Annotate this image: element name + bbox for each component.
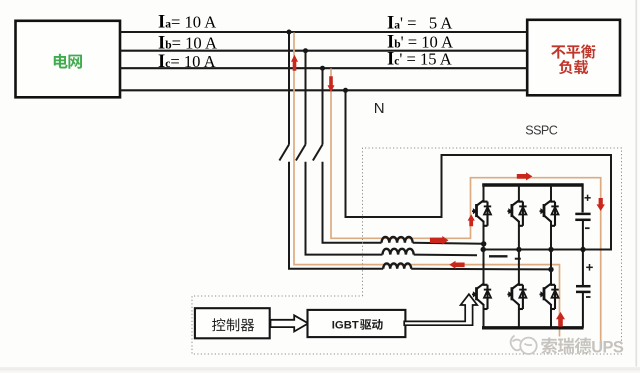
- wire: orange compensation path phase C loop: [331, 69, 601, 350]
- wire: phase B line grid to load: [120, 50, 527, 52]
- connector: block arrow controller->driver: [271, 315, 309, 331]
- svg-text:N: N: [374, 100, 385, 117]
- arrow: right loop down: [597, 198, 605, 211]
- arrow: bridge left up: [468, 214, 475, 226]
- wire: phase A to leg3 tap: [411, 268, 551, 271]
- wire: top bus to C1: [581, 183, 583, 212]
- wire: phase N line grid to load: [120, 89, 527, 91]
- wire: phase A drop upper: [288, 32, 290, 145]
- watermark text 索瑞德: [541, 337, 591, 353]
- wire: phase A drop lower + run to bridge leg3: [289, 162, 383, 269]
- node: phase B tap junction: [303, 48, 308, 53]
- arrow: row3 current left: [449, 261, 464, 269]
- wire: leg2 mid vertical: [518, 222, 520, 285]
- wire: phase C drop upper: [322, 68, 324, 144]
- text 电网 (grid): [54, 54, 82, 69]
- watermark logo circle: [511, 336, 537, 354]
- wire: phase B drop lower + run: [306, 162, 383, 255]
- wire: leg3 bottom stub: [550, 305, 552, 328]
- text 控制器: [212, 318, 254, 331]
- inductor La: [383, 263, 411, 268]
- text 不平衡: [551, 44, 595, 58]
- wire: leg2 upper stub: [518, 185, 520, 202]
- box: grid 电网: [16, 21, 121, 98]
- capacitor C1 (upper DC link): [575, 214, 590, 250]
- wire: leg3 upper stub: [550, 185, 552, 202]
- arrow: phase A injection up: [291, 55, 298, 71]
- inductor Lb: [383, 249, 414, 255]
- wire: phase B after inductor: [414, 254, 477, 257]
- box: unbalanced load 不平衡负载: [527, 20, 620, 96]
- connector: hollow gate-drive arrow: [404, 294, 477, 325]
- transistor V4 (lower IGBT leg1): [472, 283, 491, 309]
- wire: phase A line grid to load: [120, 31, 527, 33]
- box: IGBT driver IGBT驱动: [308, 310, 406, 337]
- node: phase C tap junction: [320, 66, 325, 71]
- inductor Lc: [381, 237, 412, 243]
- wire: phase B broken link tick: [515, 258, 521, 260]
- transistor V6 (lower IGBT leg3): [540, 283, 559, 309]
- transistor V2 (upper IGBT leg2): [507, 200, 526, 226]
- text 驱动: [360, 319, 383, 330]
- wire: leg3 mid vertical: [550, 222, 552, 285]
- svg-text:IGBT: IGBT: [332, 319, 359, 331]
- switch QA blade: [279, 145, 289, 161]
- transistor V5 (lower IGBT leg2): [507, 283, 526, 309]
- transistor V1 (upper IGBT leg1): [472, 200, 491, 226]
- wire: neutral branch to DC midpoint bus: [346, 90, 612, 249]
- node: mid-bus junction 1: [481, 247, 486, 252]
- node: leg1 phase C tap: [481, 241, 486, 246]
- bottom gray strip: [0, 367, 640, 371]
- node: leg3 phase A tap: [548, 267, 553, 272]
- arrow: top loop right: [517, 172, 533, 180]
- arrow: phase C absorb down: [328, 76, 335, 92]
- label C2 polarity -: [586, 296, 591, 298]
- wire: leg1 upper stub: [483, 185, 485, 202]
- wire: phase B broken link dash: [489, 255, 508, 257]
- node: mid-bus junction 3: [548, 247, 553, 252]
- wire: phase B drop upper: [305, 51, 307, 145]
- label C2 polarity +: [586, 264, 593, 271]
- wire: leg1 mid vertical: [483, 222, 485, 285]
- node: phase A tap junction: [287, 30, 292, 35]
- wire: orange compensation path phase A: [294, 33, 560, 337]
- arrow: row1 current right: [430, 236, 449, 245]
- switch QB blade: [296, 145, 306, 161]
- wire: leg2 bottom stub: [518, 305, 520, 328]
- wire: phase C line grid to load: [120, 67, 527, 69]
- wire: phase C drop lower + run: [323, 162, 382, 243]
- arrow: return up: [556, 312, 565, 327]
- wire: phase C to leg1 tap: [413, 242, 484, 245]
- label C1 polarity -: [585, 227, 590, 229]
- svg-text:UPS: UPS: [591, 338, 624, 356]
- wire: top DC bus: [482, 183, 582, 186]
- node: mid-bus junction 4: [580, 247, 585, 252]
- box: controller 控制器: [195, 308, 270, 338]
- label C1 polarity +: [585, 195, 591, 201]
- text 负载: [559, 60, 588, 74]
- capacitor C2 (lower DC link): [576, 250, 591, 328]
- transistor V3 (upper IGBT leg3): [540, 200, 559, 226]
- wire: bottom DC bus: [482, 326, 584, 329]
- svg-text:SSPC: SSPC: [525, 123, 557, 137]
- node: phase N tap junction: [343, 88, 348, 93]
- wire: leg1 bottom stub: [483, 305, 485, 328]
- SSPC dashed enclosure: [192, 148, 622, 354]
- faint page border line right: [635, 0, 637, 367]
- node: mid-bus junction 2: [516, 247, 521, 252]
- switch QC blade: [313, 145, 323, 161]
